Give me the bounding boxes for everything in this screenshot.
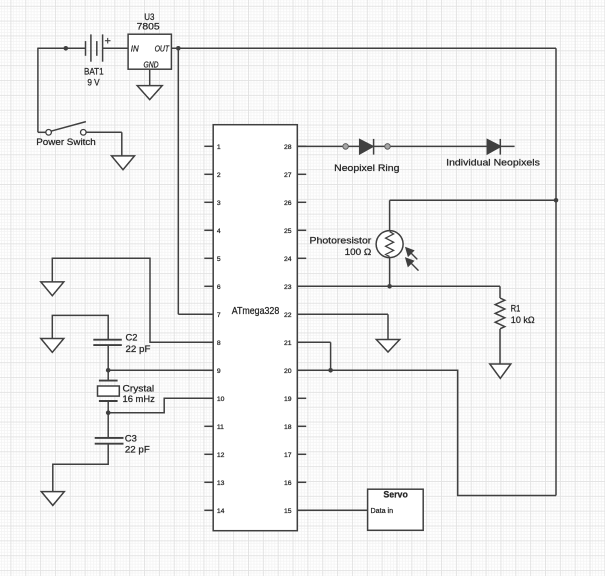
svg-text:ATmega328: ATmega328	[232, 306, 280, 317]
wire pin 22 to ground	[297, 313, 388, 315]
svg-text:14: 14	[217, 508, 225, 515]
svg-text:OUT: OUT	[155, 44, 170, 53]
svg-text:18: 18	[284, 424, 292, 431]
svg-text:BAT1: BAT1	[84, 67, 104, 78]
node junction pin21/pin20 net	[328, 368, 333, 373]
svg-text:Servo: Servo	[383, 489, 408, 500]
capacitor C3	[95, 437, 124, 439]
svg-text:C3: C3	[125, 433, 137, 444]
svg-text:26: 26	[284, 200, 292, 207]
regulator U3 7805 box	[128, 34, 171, 69]
svg-text:100 Ω: 100 Ω	[345, 247, 372, 258]
svg-text:13: 13	[217, 480, 225, 487]
switch SW1 right contact	[81, 130, 87, 136]
wire junction to crystal top	[107, 370, 109, 380]
svg-text:10: 10	[217, 396, 225, 403]
svg-text:Photoresistor: Photoresistor	[310, 235, 372, 246]
svg-text:9 V: 9 V	[87, 77, 100, 88]
wire C2 bottom to pin 9 junction	[107, 345, 109, 370]
svg-text:8: 8	[217, 340, 221, 347]
battery plus sign	[105, 40, 111, 42]
ground upper left	[41, 282, 64, 296]
svg-text:23: 23	[284, 284, 292, 291]
svg-text:Data in: Data in	[371, 508, 394, 515]
node junction C2/crystal/pin9	[106, 368, 111, 373]
node junction photoresistor/pin23	[387, 284, 392, 289]
node junction crystal/C3/pin10	[106, 410, 111, 415]
svg-text:R1: R1	[511, 304, 521, 315]
node junction rail/photoresistor	[554, 198, 559, 203]
svg-text:16 mHz: 16 mHz	[123, 394, 156, 405]
node junction battery-switch	[64, 46, 69, 51]
wire pin 23 to R1	[297, 285, 500, 287]
wire pin 21 to AVCC net	[297, 341, 330, 343]
svg-text:GND: GND	[143, 61, 158, 70]
wire pin 20 AVCC to +5V rail	[297, 370, 556, 495]
svg-text:3: 3	[217, 200, 221, 207]
wire +5V rail vertical right side	[555, 48, 557, 495]
IC U2 ATmega328 body	[213, 125, 297, 531]
svg-text:20: 20	[284, 368, 292, 375]
wire junction to pin 9	[108, 369, 213, 371]
svg-text:6: 6	[217, 284, 221, 291]
wire pin 28 to neopixels	[297, 145, 514, 147]
svg-text:IN: IN	[131, 44, 139, 53]
ground below switch	[112, 156, 135, 170]
svg-text:22: 22	[284, 312, 292, 319]
wire R1 bottom to ground	[499, 329, 501, 364]
svg-text:11: 11	[217, 424, 224, 431]
servo M1 box	[368, 489, 424, 530]
svg-text:27: 27	[284, 172, 292, 179]
svg-text:12: 12	[217, 452, 225, 459]
svg-text:28: 28	[284, 144, 292, 151]
svg-text:25: 25	[284, 228, 292, 235]
svg-text:Neopixel Ring: Neopixel Ring	[334, 163, 399, 174]
battery BAT1	[85, 41, 87, 56]
wire ground to C2 top	[52, 315, 108, 339]
ground left of C2	[41, 339, 64, 353]
svg-text:5: 5	[217, 256, 221, 263]
node gray terminal right of D1	[385, 144, 391, 150]
wire C3 bottom to ground	[53, 444, 108, 492]
node gray terminal left of D1	[343, 144, 349, 150]
svg-text:7: 7	[217, 312, 221, 319]
svg-text:22 pF: 22 pF	[126, 344, 151, 355]
IC right pin stubs 28-15	[297, 145, 306, 147]
wire switch to ground	[86, 131, 121, 133]
svg-text:19: 19	[284, 396, 292, 403]
wire regulator GND to ground	[149, 69, 151, 85]
ground below pin 22 wire	[376, 340, 399, 353]
svg-text:24: 24	[284, 256, 292, 263]
diode D2 individual neopixels	[487, 140, 500, 154]
wire photoresistor bottom to pin 23 row	[389, 258, 391, 287]
diode D1 neopixel ring	[360, 140, 373, 154]
svg-text:C2: C2	[126, 333, 138, 344]
wire pin 15 to servo	[297, 509, 367, 511]
ground below R1	[490, 364, 511, 378]
ground below regulator	[137, 86, 162, 100]
wire junction to C3 top	[107, 413, 109, 438]
wire crystal bottom to junction	[107, 401, 109, 413]
svg-text:7805: 7805	[137, 22, 160, 33]
svg-text:1: 1	[217, 144, 221, 151]
svg-text:17: 17	[284, 452, 292, 459]
svg-text:22 pF: 22 pF	[125, 444, 150, 455]
resistor R1	[495, 298, 505, 329]
svg-text:2: 2	[217, 172, 221, 179]
svg-text:9: 9	[217, 368, 221, 375]
wire OUT branch down to pin 7 VCC	[177, 48, 179, 314]
capacitor C2	[93, 339, 122, 341]
photoresistor LDR1 body	[376, 231, 403, 258]
svg-text:Individual Neopixels: Individual Neopixels	[446, 157, 540, 168]
svg-text:16: 16	[284, 480, 292, 487]
photoresistor arrows	[410, 252, 417, 259]
svg-text:21: 21	[284, 340, 292, 347]
crystal X1	[99, 380, 118, 382]
switch SW1 left contact	[46, 130, 52, 136]
switch SW1 lever	[51, 122, 86, 132]
svg-text:4: 4	[217, 228, 221, 235]
wire battery positive to regulator IN	[103, 47, 129, 49]
wire battery negative to power switch	[38, 47, 86, 49]
wire ground to pin 8 GND	[52, 258, 213, 342]
node junction at OUT	[176, 46, 181, 51]
ground bottom left	[41, 492, 64, 506]
wire junction to pin 10	[108, 398, 213, 412]
IC left pin stubs 1-14	[204, 145, 213, 147]
svg-text:10 kΩ: 10 kΩ	[511, 315, 535, 326]
wire photoresistor top to +5V rail	[390, 199, 556, 201]
svg-text:Power Switch: Power Switch	[36, 137, 96, 148]
svg-text:15: 15	[284, 508, 292, 515]
wire regulator OUT +5V rail	[171, 47, 556, 49]
